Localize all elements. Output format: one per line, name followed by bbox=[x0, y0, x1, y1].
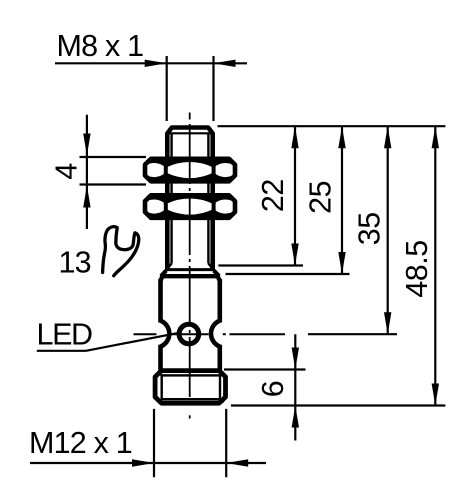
arrowhead 25 bottom bbox=[338, 252, 345, 274]
extension line nut bottom bbox=[80, 183, 147, 185]
hex nut 1 bbox=[145, 156, 235, 184]
dimension 4 (nut height) bbox=[50, 115, 146, 229]
extension line connector bottom bbox=[231, 404, 445, 406]
vertical center line top dash bbox=[189, 113, 191, 120]
dimension 6 bbox=[224, 334, 306, 440]
dimension line 48.5 bbox=[434, 126, 436, 405]
extension line M8 left bbox=[166, 56, 168, 121]
arrowhead 35 bottom bbox=[384, 312, 391, 334]
svg-text:22: 22 bbox=[256, 179, 290, 212]
svg-text:35: 35 bbox=[353, 212, 387, 245]
dimension line 25 bbox=[341, 126, 343, 274]
extension line nut top bbox=[80, 156, 147, 158]
connector corner chamfer top-left bbox=[158, 372, 162, 375]
connector corner chamfer top-right bbox=[220, 372, 224, 375]
dimension line 35 bbox=[387, 126, 389, 334]
arrowhead 6 top bbox=[292, 348, 299, 370]
dimension M8 x 1 bbox=[55, 29, 247, 121]
arrowhead 35 top bbox=[384, 126, 391, 148]
transition flare right bbox=[214, 271, 219, 277]
arrowhead 25 top bbox=[338, 126, 345, 148]
center line bottom dot bbox=[189, 415, 191, 418]
thread end line bbox=[166, 268, 214, 271]
hex nut 2 bbox=[145, 193, 235, 221]
arrowhead M8 left bbox=[145, 60, 167, 67]
right side top reference line bbox=[218, 125, 446, 127]
LED label bbox=[37, 317, 178, 351]
extension line LED center bbox=[308, 333, 397, 335]
svg-text:LED: LED bbox=[37, 317, 93, 351]
extension line M12 right bbox=[225, 409, 227, 477]
vertical center line bbox=[189, 124, 191, 404]
extension line thread end bbox=[218, 264, 303, 266]
arrowhead 22 bottom bbox=[291, 244, 298, 266]
svg-text:48.5: 48.5 bbox=[400, 240, 434, 297]
dimension line 6 upper bbox=[294, 334, 296, 405]
dimension 25 bbox=[226, 126, 350, 274]
LED label underline bbox=[37, 350, 86, 352]
horizontal center line left dash bbox=[134, 333, 157, 335]
svg-text:25: 25 bbox=[304, 181, 338, 214]
housing top edge bbox=[161, 276, 220, 281]
housing right wall with groove notch bbox=[211, 279, 220, 371]
dimension line M8 bbox=[55, 62, 247, 64]
thread minor diameter line left bbox=[170, 134, 172, 264]
horizontal center line right dash bbox=[229, 333, 285, 335]
connector corner chamfer bottom-left bbox=[158, 399, 162, 402]
extension line M8 right bbox=[212, 56, 214, 121]
arrowhead 6 bottom bbox=[292, 406, 299, 428]
dimension 35 bbox=[308, 126, 397, 334]
horizontal center line through LED bbox=[171, 333, 209, 335]
extension line connector top bbox=[224, 368, 306, 370]
dimension 48.5 bbox=[231, 126, 445, 405]
wrench icon bbox=[103, 227, 139, 276]
dimension line 22 bbox=[294, 126, 296, 265]
arrowhead 22 top bbox=[291, 126, 298, 148]
arrowhead M12 left bbox=[132, 459, 154, 466]
extension line housing top bbox=[226, 273, 350, 275]
connector corner chamfer bottom-right bbox=[220, 399, 224, 402]
svg-text:M12 x 1: M12 x 1 bbox=[29, 426, 132, 460]
svg-text:6: 6 bbox=[256, 380, 290, 397]
thread end chamfer right bbox=[208, 264, 213, 270]
svg-text:13: 13 bbox=[59, 246, 91, 280]
svg-text:4: 4 bbox=[50, 163, 84, 180]
sensor thread barrel body bbox=[167, 128, 212, 272]
LED indicator circle bbox=[179, 324, 199, 344]
horizontal center line dot bbox=[223, 333, 226, 335]
arrowhead 48.5 top bbox=[432, 126, 439, 148]
connector hex outer (M12) bbox=[155, 371, 225, 404]
arrowhead 48.5 bottom bbox=[432, 384, 439, 406]
arrowhead 4 bottom bbox=[83, 186, 90, 208]
LED leader line bbox=[86, 333, 177, 351]
extension line M12 left bbox=[153, 409, 155, 477]
arrowhead M8 right bbox=[214, 60, 236, 67]
svg-text:M8 x 1: M8 x 1 bbox=[57, 29, 144, 63]
dimension 22 bbox=[218, 126, 303, 265]
horizontal center line through LED bbox=[134, 333, 286, 335]
thread end chamfer left bbox=[167, 264, 172, 270]
housing left wall with groove notch bbox=[161, 279, 170, 371]
arrowhead 4 top bbox=[83, 134, 90, 156]
dimension M12 x 1 bbox=[29, 409, 266, 477]
dimension line 4 bbox=[86, 115, 88, 229]
transition flare left bbox=[161, 271, 166, 277]
dimension line M12 bbox=[30, 462, 266, 464]
dimension line 6 lower tail bbox=[294, 406, 296, 441]
connector hex face rect bbox=[162, 375, 220, 399]
barrel top chamfer line bbox=[169, 132, 212, 134]
thread minor diameter line right bbox=[207, 134, 209, 264]
arrowhead M12 right bbox=[226, 459, 248, 466]
housing body fill bbox=[161, 276, 220, 370]
